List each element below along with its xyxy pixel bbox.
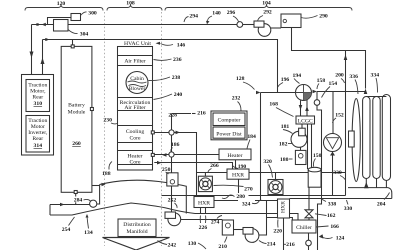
svg-text:158: 158 [317, 78, 326, 84]
svg-text:154: 154 [329, 81, 338, 87]
svg-text:230: 230 [103, 118, 112, 124]
svg-text:181: 181 [281, 124, 290, 130]
svg-text:304: 304 [80, 32, 89, 38]
svg-text:266: 266 [210, 163, 219, 169]
svg-text:Power Dist: Power Dist [216, 132, 242, 138]
svg-text:188: 188 [102, 171, 111, 177]
svg-text:296: 296 [227, 10, 236, 16]
svg-text:Rear: Rear [32, 95, 43, 101]
svg-text:284: 284 [74, 198, 83, 204]
svg-text:232: 232 [232, 96, 241, 102]
svg-text:180: 180 [280, 157, 289, 163]
svg-text:150: 150 [313, 153, 322, 159]
svg-text:Air Filter: Air Filter [124, 105, 145, 111]
svg-text:120: 120 [57, 1, 66, 7]
svg-text:Module: Module [68, 110, 86, 116]
svg-text:196: 196 [281, 77, 290, 83]
svg-text:238: 238 [172, 75, 181, 81]
svg-text:Core: Core [129, 136, 141, 142]
svg-text:236: 236 [173, 57, 182, 63]
svg-text:168: 168 [269, 102, 278, 108]
svg-text:280: 280 [236, 194, 245, 200]
svg-text:338: 338 [328, 201, 337, 207]
svg-text:254: 254 [62, 227, 71, 233]
svg-text:Distribution: Distribution [123, 222, 151, 228]
svg-text:Blower: Blower [129, 86, 146, 92]
svg-text:Chiller: Chiller [296, 225, 312, 231]
svg-text:292: 292 [263, 10, 272, 16]
svg-text:162: 162 [327, 213, 336, 219]
svg-text:LCGC: LCGC [298, 118, 313, 124]
svg-text:242: 242 [168, 243, 177, 249]
svg-text:152: 152 [335, 113, 344, 119]
svg-text:290: 290 [319, 14, 328, 20]
svg-text:294: 294 [189, 14, 198, 20]
svg-text:260: 260 [72, 141, 81, 147]
svg-text:252: 252 [168, 198, 177, 204]
svg-text:336: 336 [349, 74, 358, 80]
svg-text:Rear: Rear [32, 136, 43, 142]
svg-text:HXR: HXR [232, 173, 244, 179]
svg-text:220: 220 [273, 229, 282, 235]
svg-text:134: 134 [84, 230, 93, 236]
svg-text:Core: Core [129, 160, 141, 166]
svg-text:190: 190 [238, 164, 247, 170]
svg-text:166: 166 [330, 224, 339, 230]
svg-text:140: 140 [212, 11, 221, 17]
svg-text:Computer: Computer [218, 118, 241, 124]
svg-text:184: 184 [247, 134, 256, 140]
svg-text:186: 186 [171, 142, 180, 148]
svg-text:194: 194 [293, 73, 302, 79]
svg-text:200: 200 [335, 73, 344, 79]
svg-text:214: 214 [267, 242, 276, 248]
svg-text:310: 310 [34, 101, 43, 107]
svg-text:210: 210 [218, 244, 227, 250]
svg-text:108: 108 [126, 1, 135, 7]
svg-text:204: 204 [377, 202, 386, 208]
svg-text:320: 320 [263, 159, 272, 165]
svg-text:Air Filter: Air Filter [124, 59, 145, 65]
svg-text:330: 330 [333, 170, 342, 176]
svg-text:240: 240 [174, 92, 183, 98]
svg-text:HXR: HXR [198, 201, 210, 207]
svg-text:Cooling: Cooling [126, 129, 144, 135]
svg-text:Manifold: Manifold [126, 228, 147, 235]
svg-text:128: 128 [236, 76, 245, 82]
svg-text:HXR: HXR [281, 201, 287, 213]
svg-text:324: 324 [242, 201, 251, 207]
svg-text:130: 130 [188, 241, 197, 247]
svg-text:226: 226 [199, 225, 208, 231]
svg-text:334: 334 [371, 73, 380, 79]
svg-text:124: 124 [336, 235, 345, 241]
svg-text:216: 216 [197, 111, 206, 117]
svg-text:330: 330 [344, 206, 353, 212]
svg-text:182: 182 [279, 142, 288, 148]
svg-text:270: 270 [244, 187, 253, 193]
svg-text:104: 104 [262, 1, 271, 7]
svg-text:300: 300 [88, 11, 97, 17]
svg-text:Heater: Heater [227, 153, 242, 159]
svg-text:314: 314 [34, 143, 43, 149]
svg-text:Battery: Battery [68, 103, 85, 109]
svg-text:216: 216 [286, 242, 295, 248]
svg-text:274: 274 [211, 220, 220, 226]
svg-text:146: 146 [177, 43, 186, 49]
